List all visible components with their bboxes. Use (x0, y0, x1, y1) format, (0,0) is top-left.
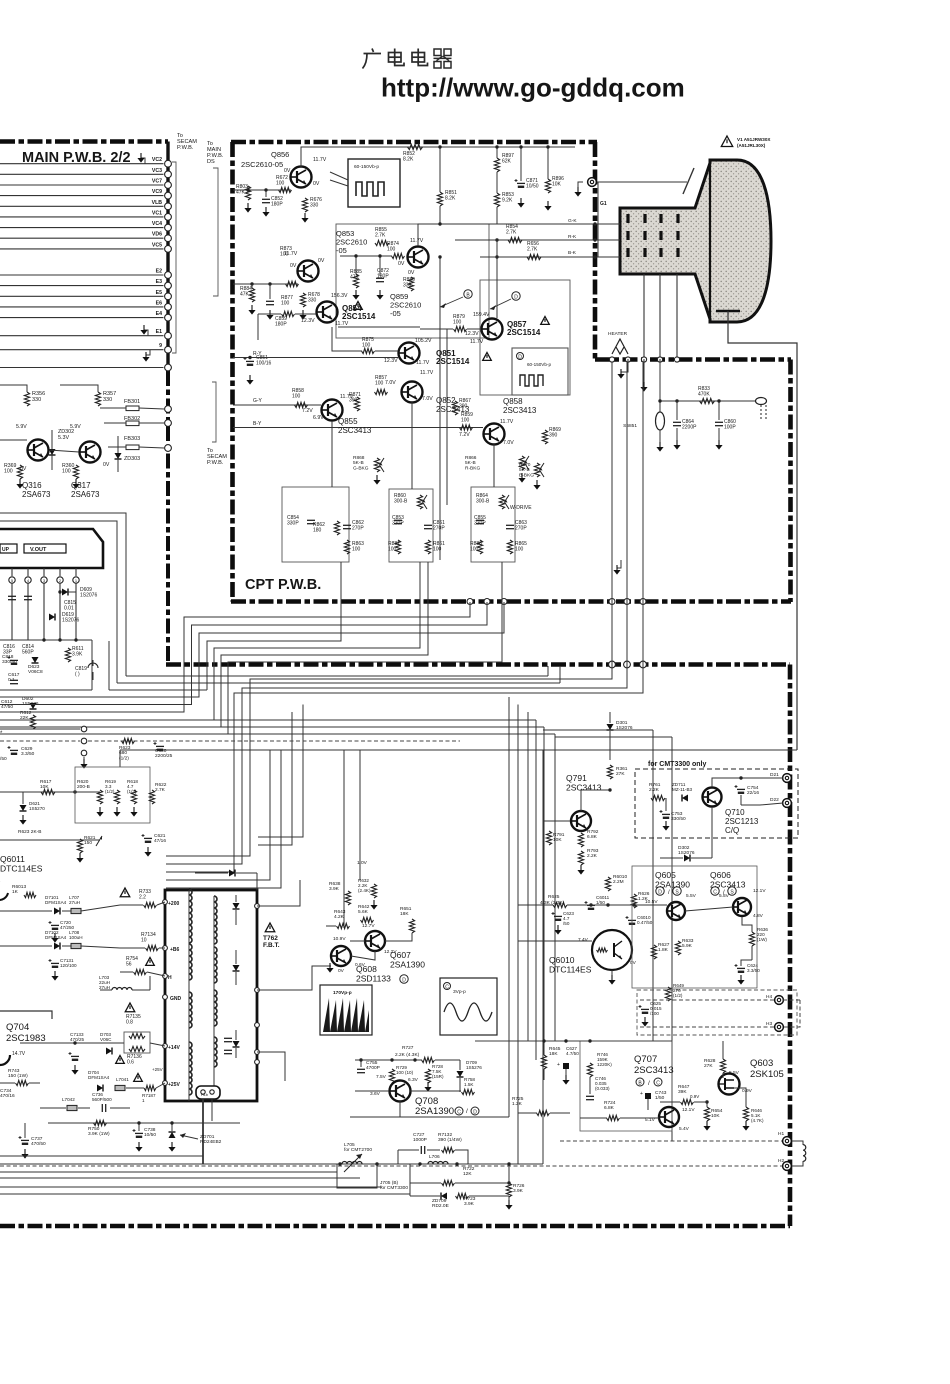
resistor R638 (345, 891, 350, 905)
svg-text:300-B: 300-B (476, 499, 490, 505)
capacitor C860 (715, 422, 723, 425)
svg-text:HEATER: HEATER (608, 331, 628, 337)
wire CPT right bus (597, 182, 599, 257)
svg-text:2SA1390: 2SA1390 (390, 960, 425, 970)
pin FBT right y1052 (255, 1050, 260, 1055)
wire Q854 (258, 313, 281, 315)
svg-text:P.W.B.: P.W.B. (207, 460, 224, 466)
wire band y690 (109, 689, 207, 691)
svg-text:2.2K: 2.2K (649, 787, 660, 793)
svg-text:2SC3413: 2SC3413 (566, 783, 602, 793)
wire fan w7 nested below CPT (207, 562, 341, 690)
resistor R361 (607, 765, 612, 779)
svg-text:2200P: 2200P (682, 425, 697, 431)
capacitor C862 (343, 525, 351, 528)
wire R750 row (48, 1122, 240, 1124)
svg-text:L706: L706 (429, 1154, 440, 1160)
sawtooth waveform box (320, 985, 372, 1035)
node H3 (775, 1023, 784, 1032)
svg-text:+200: +200 (168, 901, 179, 907)
svg-text:100: 100 (280, 252, 289, 258)
svg-text:47/50: 47/50 (1, 704, 13, 710)
transistor Q856 (291, 167, 312, 188)
resistor R627 (651, 945, 656, 959)
svg-text:2SC3413: 2SC3413 (338, 426, 372, 435)
node border 660 (657, 357, 662, 362)
resistor R880 (408, 277, 413, 291)
resistor R724b (607, 1115, 620, 1120)
svg-text:R866: R866 (465, 455, 477, 461)
svg-text:0.01: 0.01 (64, 606, 74, 612)
V1 warning (721, 136, 732, 147)
svg-text:D: D (658, 889, 662, 895)
svg-text:DS: DS (207, 159, 215, 165)
svg-text:R633: R633 (682, 938, 694, 944)
svg-text:C: C (656, 1080, 660, 1086)
resistor R625 (553, 902, 567, 907)
pin 4 IC (27, 568, 29, 576)
svg-text:R622: R622 (155, 782, 167, 788)
ground R726 (505, 1200, 512, 1210)
wire connector row VC2 (0, 163, 164, 165)
ground R619 (113, 807, 120, 817)
svg-text:27K: 27K (616, 771, 625, 777)
coil L7041 (115, 1085, 125, 1090)
box CPT bottom 1 (282, 487, 349, 562)
svg-text:DFM1SA4: DFM1SA4 (45, 900, 67, 905)
svg-text:VC7: VC7 (152, 179, 162, 185)
ground R866 (518, 473, 525, 483)
wire fan vertical x627 (626, 362, 628, 666)
svg-text:R654: R654 (711, 1108, 723, 1114)
node D21 (783, 774, 792, 783)
circled B callout (464, 290, 472, 298)
svg-text:R6013: R6013 (12, 884, 26, 890)
svg-text:(1W): (1W) (757, 937, 767, 942)
resistor R857 (375, 389, 388, 394)
pin FBT right y906 (255, 904, 260, 909)
svg-text:1/50: 1/50 (596, 900, 605, 905)
IC U301 chroma outline (0, 529, 103, 568)
resistor R761 (651, 795, 665, 800)
wire connector row VC9 (0, 195, 164, 197)
svg-text:3.9K (1W): 3.9K (1W) (88, 1131, 110, 1137)
resistor R656 (527, 254, 541, 259)
svg-text:100 (10): 100 (10) (396, 1070, 414, 1075)
border MAIN PWB right dashdot lower (166, 371, 170, 665)
capacitor C859 (266, 301, 274, 304)
svg-text:159.4V: 159.4V (473, 312, 490, 318)
zener ZD302 (49, 449, 56, 455)
coil L707 (71, 908, 81, 913)
capacitor C620 (154, 742, 165, 751)
svg-text:10/50: 10/50 (144, 1132, 156, 1138)
svg-text:UP: UP (2, 547, 10, 553)
node FB302 (165, 420, 172, 427)
resistor R622 (149, 790, 154, 804)
svg-text:C727: C727 (413, 1132, 425, 1138)
svg-text:470K: 470K (698, 392, 710, 398)
wire vertical x360 (359, 750, 361, 880)
svg-text:/50: /50 (563, 921, 570, 926)
resistor R678 (300, 293, 305, 307)
svg-text:39K: 39K (678, 1089, 687, 1095)
node D22 (783, 799, 792, 808)
svg-text:Q858: Q858 (503, 397, 523, 406)
svg-text:DFM1SA4: DFM1SA4 (88, 1075, 110, 1080)
resistor R646 (743, 1107, 748, 1121)
transistor Q316 (28, 440, 49, 461)
resistor R369 (17, 465, 22, 479)
FBT diode 1 (233, 903, 240, 909)
svg-text:7.4V: 7.4V (578, 937, 589, 943)
capacitor C853 (394, 520, 402, 523)
resistor R726 (506, 1183, 511, 1197)
resistor R758 (462, 1089, 475, 1094)
wire IC bottom bus (0, 639, 92, 641)
wire R623 pot row (0, 839, 100, 841)
box CPT bottom 3 (471, 487, 515, 562)
capacitor C861 (424, 525, 432, 528)
ground R868 (373, 475, 380, 485)
wire Q858 down to box3 (493, 444, 495, 487)
wire Q853b base (233, 283, 298, 285)
svg-text:10/50: 10/50 (526, 184, 539, 190)
svg-text:0V: 0V (338, 968, 345, 974)
capacitor C863 (506, 525, 514, 528)
diode D602 (30, 703, 37, 709)
svg-text:27uH: 27uH (99, 985, 110, 990)
wire connector row aux (0, 367, 164, 369)
resistor R647 (681, 1099, 694, 1104)
wire Q857 base (420, 328, 453, 330)
svg-text:C/Q: C/Q (725, 826, 739, 835)
svg-text:2200/25: 2200/25 (155, 753, 173, 759)
svg-text:1: 1 (142, 1098, 145, 1103)
svg-text:R628: R628 (704, 1058, 716, 1064)
resistor R633 (675, 941, 680, 955)
wire (0, 439, 27, 441)
svg-text:5.3V: 5.3V (58, 435, 69, 441)
svg-text:C620: C620 (155, 748, 167, 754)
ground C871 (517, 198, 524, 208)
box Q853 cluster (336, 224, 489, 338)
svg-text:E3: E3 (156, 279, 162, 285)
wire G1 to grid (597, 181, 687, 183)
wire q603 top (722, 1041, 724, 1059)
svg-text:11.7V: 11.7V (410, 238, 424, 244)
diode D619 (49, 614, 55, 621)
svg-text:D: D (514, 294, 518, 300)
diode D623 (32, 657, 39, 663)
label T762 FBT (265, 923, 275, 932)
svg-text:FB303: FB303 (124, 436, 140, 442)
svg-text:H1b: H1b (201, 1093, 208, 1097)
transistor Q6011 partial (0, 882, 8, 900)
svg-text:2SC1514: 2SC1514 (507, 328, 541, 337)
svg-text:D623: D623 (28, 664, 40, 670)
transistor Q606circ (732, 898, 751, 916)
svg-text:2SA673: 2SA673 (22, 490, 51, 499)
wire r617 row (0, 791, 100, 793)
zener ZD711 (682, 795, 688, 802)
svg-text:5.9V: 5.9V (70, 424, 81, 430)
capacitor C6010 (626, 916, 637, 925)
diode D621 (20, 805, 27, 811)
svg-text:100: 100 (292, 394, 301, 400)
resistor R861 (425, 540, 430, 554)
wire R-K row (455, 239, 620, 241)
resistor R619 (114, 790, 119, 804)
wire fan w4 to FBT (166, 666, 612, 856)
wire Q791 (581, 790, 610, 811)
capacitor C855 (476, 520, 484, 523)
capacitor C816 (8, 596, 16, 599)
node FB303 (165, 445, 172, 452)
wire Q855 down to box1 (331, 421, 333, 487)
resistor R672 (279, 187, 292, 192)
resistor R612 (30, 715, 35, 729)
ground x644 (643, 359, 645, 385)
wire vertical x344 (343, 750, 345, 928)
resistor R877 (282, 311, 295, 316)
svg-text:Q856: Q856 (271, 150, 289, 159)
svg-text:150 (1W): 150 (1W) (8, 1073, 28, 1079)
wire FBT right pin2 (257, 966, 331, 990)
bracket to SECAM (172, 162, 176, 353)
svg-text:C737: C737 (31, 1136, 43, 1142)
svg-text:R868: R868 (353, 455, 365, 461)
svg-text:CPT P.W.B.: CPT P.W.B. (245, 577, 321, 593)
svg-text:2SC1983: 2SC1983 (6, 1033, 46, 1044)
bracket to MAIN DS (213, 168, 218, 296)
FBT T762 outline (165, 890, 257, 1101)
svg-text:470/16: 470/16 (0, 1093, 15, 1099)
ground R620 (96, 807, 103, 817)
wire fan w6e (258, 705, 303, 838)
node VC2 (165, 160, 172, 167)
svg-text:180P: 180P (271, 202, 283, 208)
svg-text:2SC3413: 2SC3413 (634, 1065, 674, 1076)
ground C864 (673, 440, 680, 450)
transistor Q603 FET (719, 1074, 740, 1095)
connector oval right (756, 398, 767, 405)
pin FBT left y902 (163, 900, 168, 905)
wire vertical x544b (543, 727, 545, 1041)
CRT grid electrodes (626, 214, 629, 223)
transistor Q791circ (571, 811, 591, 831)
ground Q608 (326, 963, 333, 973)
coil L708 (71, 943, 81, 948)
svg-text:11.7V: 11.7V (500, 419, 514, 425)
resistor R873 (286, 281, 299, 286)
svg-text:2SC1514: 2SC1514 (342, 312, 376, 321)
svg-text:2SC1213: 2SC1213 (725, 817, 759, 826)
node FB301 (165, 406, 172, 413)
svg-text:G-Y: G-Y (253, 398, 263, 404)
svg-text:D: D (518, 354, 522, 360)
svg-text:11.7V: 11.7V (416, 360, 430, 366)
svg-text:R7132: R7132 (438, 1132, 452, 1138)
wire connector row VC7 (0, 184, 164, 186)
svg-text:G-K: G-K (568, 218, 577, 224)
svg-text:T762: T762 (263, 935, 278, 942)
svg-text:330P: 330P (474, 521, 486, 527)
box H3 H4 dashed (637, 990, 797, 1035)
svg-text:R724: R724 (604, 1100, 616, 1106)
svg-text:(15R): (15R) (432, 1074, 444, 1079)
ground Q316 (16, 479, 23, 489)
callout from waveform box (330, 172, 348, 180)
capacitor C736 (102, 1104, 105, 1112)
svg-text:(4.7K): (4.7K) (751, 1118, 764, 1123)
transistor Q608 (331, 946, 351, 966)
svg-text:VC4: VC4 (152, 221, 162, 227)
capacitor C737 (19, 1136, 30, 1145)
svg-text:1.2K: 1.2K (512, 1101, 523, 1107)
svg-text:Q6011: Q6011 (0, 854, 25, 864)
svg-text:RD24EB2: RD24EB2 (200, 1139, 222, 1145)
svg-text:C: C (457, 1109, 461, 1115)
node H4 (775, 996, 784, 1005)
node VLB (165, 203, 172, 210)
resistor R874 (392, 253, 405, 258)
svg-text:2SA673: 2SA673 (71, 490, 100, 499)
diode D704 (97, 1085, 103, 1092)
border horizontal below CRT (595, 357, 791, 362)
svg-text:560P/500: 560P/500 (92, 1097, 112, 1102)
pin 1 IC (75, 568, 77, 576)
pin 5 IC (11, 568, 13, 576)
pin FBT left y997 (163, 995, 168, 1000)
svg-text:470/25: 470/25 (70, 1037, 84, 1042)
FBT secondary winding (214, 896, 217, 944)
svg-text:R617: R617 (40, 779, 52, 785)
svg-text:330: 330 (103, 397, 112, 403)
wire fan w6c (166, 750, 281, 888)
heater symbol (612, 339, 628, 354)
wire bus y1172 (0, 1171, 337, 1173)
svg-text:R725: R725 (512, 1096, 524, 1102)
svg-text:+: + (640, 1091, 643, 1097)
svg-text:7.2V: 7.2V (459, 432, 470, 438)
wire B-Y row (233, 427, 483, 429)
svg-text:560P: 560P (22, 650, 34, 656)
svg-text:D: D (402, 977, 406, 983)
resistor R7187 (144, 1085, 156, 1090)
capacitor C814 (24, 596, 32, 599)
node cpt bottom 643 (640, 599, 646, 605)
capacitor C7131 (49, 959, 60, 968)
svg-text:P.W.B.: P.W.B. (177, 145, 194, 151)
svg-text:/: / (466, 1108, 468, 1115)
potentiometer R866 (519, 456, 524, 470)
node G1 (588, 178, 597, 187)
ground R896 (544, 201, 551, 211)
svg-text:680: 680 (119, 750, 127, 756)
wire FBT right pin3 (257, 1052, 285, 1081)
resistor R617 (41, 789, 55, 794)
svg-text:1/50: 1/50 (655, 1095, 665, 1101)
svg-text:47/16: 47/16 (154, 838, 166, 844)
svg-text:V1 A51JRW30X: V1 A51JRW30X (737, 137, 771, 142)
connector H1b FBT bottom (196, 1086, 220, 1099)
wire Q6010 (518, 940, 592, 942)
wire connector row VC1 (0, 216, 164, 218)
svg-text:(1/2): (1/2) (105, 789, 115, 794)
hook ground row9 (146, 350, 150, 355)
capacitor C818 (8, 656, 19, 665)
wire top row q707 (475, 1040, 672, 1042)
capacitor C629 (8, 746, 19, 755)
svg-text:9.2K: 9.2K (502, 198, 513, 204)
ground C852 (262, 207, 269, 217)
svg-text:2SC2610-05: 2SC2610-05 (241, 160, 283, 169)
svg-text:Q606: Q606 (710, 870, 731, 880)
svg-text:R6010: R6010 (613, 874, 627, 880)
wire vertical x518 (517, 705, 519, 1165)
resistor R863 (344, 540, 349, 554)
svg-text:6.3V: 6.3V (408, 1077, 419, 1083)
border bottom (0, 1224, 790, 1229)
svg-text:Q608: Q608 (356, 964, 377, 974)
svg-text:100: 100 (387, 247, 396, 253)
svg-text:4700P: 4700P (366, 1065, 380, 1071)
svg-text:6.8K: 6.8K (604, 1105, 615, 1111)
svg-text:1000P: 1000P (413, 1137, 427, 1143)
wire connector row VD6 (0, 237, 164, 239)
svg-text:C617: C617 (8, 672, 20, 678)
svg-text:Q704: Q704 (6, 1022, 29, 1033)
svg-text:156.3V: 156.3V (331, 293, 348, 299)
wire vertical x447 (446, 329, 448, 505)
wire long y750 (120, 749, 797, 751)
transistor Q704 (0, 1045, 10, 1065)
box waveform 60-150Vb-p top (348, 159, 400, 207)
svg-text:100: 100 (453, 320, 462, 326)
svg-text:0.9V: 0.9V (690, 1094, 699, 1099)
svg-text:5.9V: 5.9V (16, 424, 27, 430)
svg-text:Q6010: Q6010 (549, 955, 575, 965)
svg-text:10: 10 (141, 938, 147, 944)
wire connector row E6 (0, 306, 164, 308)
svg-text:270P: 270P (433, 526, 445, 532)
wire H1 row dashed (560, 1140, 782, 1142)
wire y735 (0, 740, 80, 742)
svg-text:R627: R627 (658, 942, 670, 948)
svg-text:18K: 18K (400, 911, 409, 917)
transistor Q853 (408, 247, 429, 268)
svg-text:R870: R870 (519, 462, 531, 468)
svg-text:J705 (B): J705 (B) (380, 1180, 399, 1186)
wire vertical x543 (542, 750, 544, 1164)
resistor R611 (65, 648, 70, 662)
svg-text:/50: /50 (0, 756, 7, 762)
svg-text:0V: 0V (630, 960, 637, 966)
svg-text:330/50: 330/50 (2, 659, 17, 665)
svg-text:2SC3413: 2SC3413 (710, 880, 746, 890)
svg-text:5.4V: 5.4V (679, 1126, 690, 1132)
resistor R621 (77, 839, 82, 853)
pin 3 IC (43, 568, 45, 576)
potentiometer R860 (417, 495, 422, 509)
svg-text:+: + (557, 1062, 560, 1068)
transistor Q607 (365, 931, 385, 951)
resistor R632 (371, 884, 376, 898)
svg-text:B-K: B-K (568, 250, 577, 256)
ground C872 (376, 290, 383, 300)
svg-text:12.7V: 12.7V (362, 923, 375, 929)
